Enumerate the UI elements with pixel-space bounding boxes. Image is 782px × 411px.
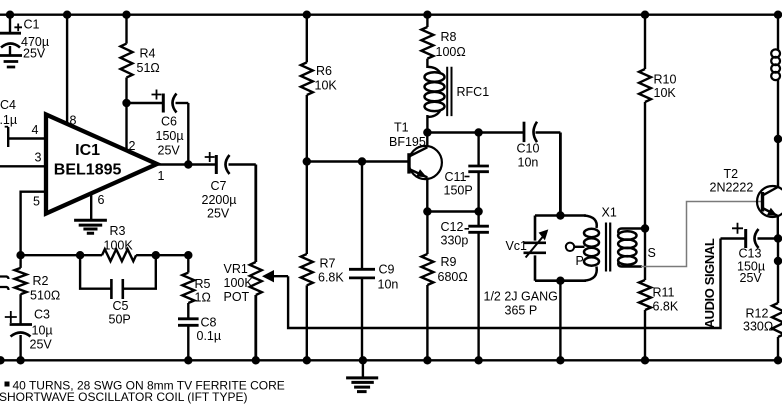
capacitor C9 [349,162,398,361]
resistor R9 [421,212,467,361]
svg-text:25V: 25V [30,338,53,352]
svg-text:C5: C5 [113,299,129,313]
svg-text:IC1: IC1 [75,142,100,159]
wire pin-3 from left edge [0,165,46,167]
resistor R3 [102,224,136,261]
transformer X1 core [606,223,610,272]
svg-text:BF195: BF195 [389,135,426,149]
svg-text:2200µ: 2200µ [202,193,237,207]
capacitor C7 [202,152,256,221]
svg-text:C7: C7 [211,179,227,193]
inductor (right edge, cut off) [771,15,780,139]
wire top supply rail [0,13,778,15]
svg-text:C12: C12 [441,220,464,234]
svg-text:51Ω: 51Ω [137,61,160,75]
node bottom-rail junction dots [16,356,782,364]
pin 1 label [158,169,165,183]
pin 5 label [33,195,40,209]
wire pin-1 output row [157,163,216,165]
svg-text:X1: X1 [602,206,617,220]
svg-text:100Ω: 100Ω [436,45,466,59]
potentiometer VR1 [224,165,289,361]
capacitor C12 [441,212,489,361]
wire C10 drop to gang [559,133,562,216]
capacitor C13 [721,223,779,285]
wire X1 secondary to T2 base [641,202,763,268]
svg-text:S: S [648,246,656,260]
resistor R12 [743,239,782,361]
svg-text:R7: R7 [320,257,336,271]
capacitor C10 [517,122,561,170]
pin 8 label [70,114,77,128]
svg-text:25V: 25V [207,207,230,221]
inductor RFC1 [425,67,490,133]
transistor T2 2N2222 [710,167,782,239]
label gang value [484,290,558,318]
svg-text:1: 1 [158,169,165,183]
svg-text:R3: R3 [110,224,126,238]
svg-text:150P: 150P [444,184,473,198]
node right column junction [774,135,782,143]
resistor R6 [301,15,338,162]
svg-text:365 P: 365 P [505,304,538,318]
wire T1 base row [307,160,409,162]
pin 6 label [98,193,105,207]
svg-text:SHORTWAVE OSCILLATOR COIL (IFT: SHORTWAVE OSCILLATOR COIL (IFT TYPE) [0,390,248,404]
svg-text:510Ω: 510Ω [30,289,60,303]
svg-text:10n: 10n [378,278,399,292]
node C12 top junction [474,207,482,215]
capacitor C4 (cut off at edge) [0,98,46,147]
capacitor Vc1 gang box [505,216,586,281]
svg-text:25V: 25V [740,271,763,285]
capacitor C8 [178,316,221,361]
svg-text:0.1µ: 0.1µ [0,113,17,127]
svg-text:R2: R2 [33,274,49,288]
resistor R10 [639,15,676,227]
svg-text:C13: C13 [739,247,762,261]
coil L1 (cut off at edge) [0,277,9,291]
wire VR1 wiper to audio-signal run [288,239,720,329]
svg-text:P: P [576,254,584,268]
svg-text:POT: POT [224,290,250,304]
ground (below C1) [0,56,22,68]
svg-text:C6: C6 [161,115,177,129]
svg-text:680Ω: 680Ω [438,270,468,284]
node T1 base / R6-R7 junction [303,157,311,165]
node T1 emitter junction [423,207,431,215]
ground (bottom rail) [346,360,378,391]
svg-text:AUDIO SIGNAL: AUDIO SIGNAL [702,238,717,328]
node gang bottom junction [556,277,564,285]
wire bottom ground rail [0,359,778,361]
transformer X1 tap terminal [566,243,585,251]
node R4/C6/pin-2 junction [122,99,130,107]
svg-text:2N2222: 2N2222 [710,181,754,195]
wire T2 collector drop [777,139,779,187]
svg-text:1Ω: 1Ω [195,291,211,305]
node top-rail junction dots [6,11,782,19]
svg-text:10µ: 10µ [32,324,53,338]
label P [576,254,584,268]
capacitor C5 [80,255,156,326]
node C11 top junction [474,128,482,136]
svg-text:1/2 2J GANG: 1/2 2J GANG [484,290,558,304]
svg-text:50P: 50P [109,313,131,327]
svg-text:10n: 10n [518,156,539,170]
svg-text:T2: T2 [724,167,739,181]
svg-text:VR1: VR1 [224,262,248,276]
footnote line 1 [5,379,285,393]
svg-text:10K: 10K [654,86,677,100]
svg-text:25V: 25V [158,144,181,158]
svg-text:6.8K: 6.8K [318,271,344,285]
svg-text:8: 8 [70,114,77,128]
svg-text:C1: C1 [24,18,40,32]
resistor R4 [121,15,160,103]
svg-text:R12: R12 [746,307,769,321]
label AUDIO SIGNAL [702,238,717,328]
svg-text:C10: C10 [517,142,540,156]
svg-text:25V: 25V [23,47,46,61]
svg-text:C4: C4 [0,98,16,112]
label X1 [602,206,617,220]
wire pin-8 drop from rail [66,15,68,125]
op-amp IC1 BEL1895 triangle [46,115,157,214]
resistor R8 [421,15,465,68]
svg-text:6: 6 [98,193,105,207]
node C6/pin-1/R5 junction [184,160,192,168]
svg-text:100K: 100K [104,239,134,253]
capacitor C1 [0,15,49,61]
transistor T1 BF195 [389,121,442,212]
wire pin-5 to left column [21,192,46,256]
wire gang bottom drop [559,281,561,361]
resistor R11 [639,227,679,360]
node bottom-rail edge junction (cut off) [0,356,5,364]
svg-text:C11: C11 [445,170,467,184]
svg-text:BEL1895: BEL1895 [54,161,122,178]
node gang top junction [556,211,564,219]
wire R3 feedback row [21,254,189,256]
pin 3 label [35,151,42,165]
svg-text:C3: C3 [34,308,50,322]
svg-text:3: 3 [35,151,42,165]
capacitor C6 [127,90,189,165]
wire emitter row [427,210,478,212]
svg-text:330p: 330p [441,234,469,248]
svg-text:C9: C9 [379,263,395,277]
label S [648,246,656,260]
node T1 collector junction [423,128,431,136]
capacitor C11 [444,133,489,212]
svg-text:6.8K: 6.8K [653,300,679,314]
wire pin-6 stub [90,193,92,219]
svg-text:RFC1: RFC1 [457,85,490,99]
svg-text:R9: R9 [441,255,457,269]
wire pin-2 drop [125,103,127,151]
node C9 top junction [358,157,366,165]
node X1 secondary / R10-R11 junction [641,224,649,232]
wire collector row [427,131,524,133]
svg-text:0.1µ: 0.1µ [197,329,222,343]
svg-text:4: 4 [32,123,39,137]
capacitor C3 [5,308,53,361]
footnote line 2 [0,390,248,404]
svg-text:100K: 100K [224,276,254,290]
svg-text:330Ω: 330Ω [743,320,773,334]
svg-text:150µ: 150µ [156,129,184,143]
transformer X1 primary [584,216,599,281]
resistor R2 [15,255,61,324]
svg-text:R6: R6 [316,64,332,78]
node emitter column junction [774,257,782,265]
svg-text:5: 5 [33,195,40,209]
node C13 / T2 emitter junction [774,234,782,242]
pin 4 label [32,123,39,137]
transformer X1 secondary [618,229,645,267]
pin 2 label [129,139,136,153]
svg-text:R5: R5 [195,277,211,291]
node R3 row junctions [16,251,192,259]
resistor R7 [301,162,345,361]
svg-text:T1: T1 [394,121,409,135]
svg-text:R8: R8 [441,30,457,44]
resistor R5 [182,255,210,319]
svg-text:C8: C8 [201,316,217,330]
ground (IC1 pin 6) [74,220,107,233]
svg-text:R11: R11 [653,286,675,300]
svg-text:Vc1: Vc1 [505,239,527,253]
svg-text:R4: R4 [140,47,156,61]
svg-text:R10: R10 [654,73,677,87]
svg-text:2: 2 [129,139,136,153]
svg-text:10K: 10K [315,79,338,93]
